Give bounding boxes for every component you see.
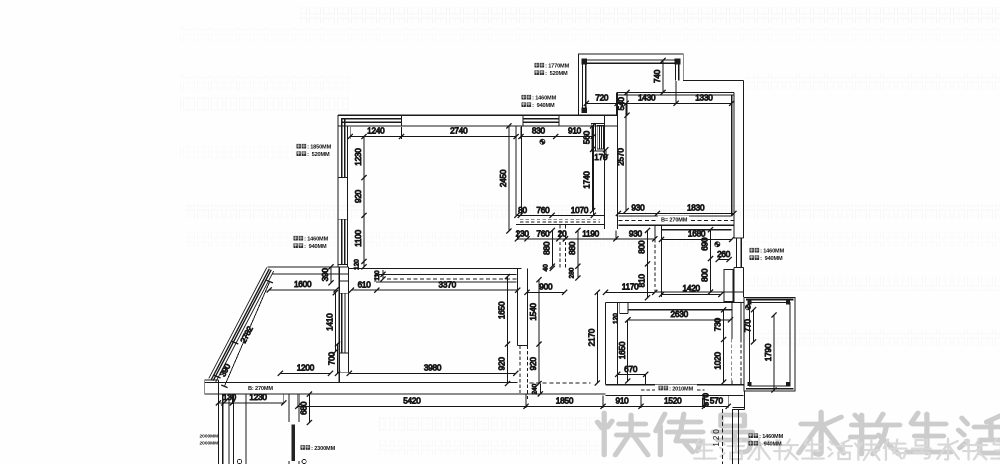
dim 1650 bedroom bbox=[618, 317, 631, 383]
svg-text:1330: 1330 bbox=[695, 93, 713, 102]
dim 110 bbox=[374, 270, 386, 282]
wall: pier divider lines on left wall bbox=[338, 178, 348, 265]
balcony railing corner posts bbox=[581, 59, 680, 113]
symbol phi marker bbox=[715, 242, 720, 247]
svg-text:740: 740 bbox=[653, 69, 662, 83]
dim 130/1230 bbox=[216, 393, 287, 405]
dim 3980 bbox=[347, 363, 519, 376]
annotation win 1460/940 d bbox=[749, 433, 784, 447]
svg-text:1410: 1410 bbox=[325, 313, 334, 331]
svg-text:: 940MM: : 940MM bbox=[532, 103, 555, 109]
dim 2170 bbox=[587, 290, 600, 386]
svg-text:40: 40 bbox=[543, 264, 550, 272]
svg-text:1200: 1200 bbox=[297, 364, 315, 373]
annotation win 1460/940 a bbox=[522, 95, 557, 109]
svg-text:80: 80 bbox=[518, 206, 527, 215]
svg-text:: 1770MM: : 1770MM bbox=[545, 64, 569, 70]
svg-text:20: 20 bbox=[558, 230, 567, 239]
svg-text:2170: 2170 bbox=[587, 328, 596, 346]
balcony railing left rail bbox=[583, 64, 586, 108]
wall: living room left band bbox=[339, 267, 348, 383]
corridor door jambs dashed bbox=[560, 225, 566, 268]
annotation win 1850/520 bbox=[297, 144, 332, 158]
svg-text:3370: 3370 bbox=[439, 280, 457, 289]
dim 740 balcony bbox=[653, 58, 666, 95]
svg-text:1790: 1790 bbox=[764, 343, 773, 361]
wall: bedroom C top bbox=[617, 92, 734, 94]
svg-text:920: 920 bbox=[529, 357, 538, 371]
symbol phi marker bbox=[745, 305, 750, 310]
svg-text:690: 690 bbox=[701, 237, 710, 251]
dim 1680 bbox=[659, 230, 734, 243]
dim 1600 bbox=[267, 280, 339, 293]
svg-text:800: 800 bbox=[701, 268, 710, 282]
svg-text:680: 680 bbox=[300, 401, 309, 415]
door leaf at stairwell bbox=[291, 424, 294, 461]
svg-text:1240: 1240 bbox=[367, 127, 385, 136]
svg-text:2450: 2450 bbox=[499, 169, 508, 187]
svg-text:920: 920 bbox=[354, 189, 363, 203]
svg-text:900: 900 bbox=[539, 282, 553, 291]
svg-text:610: 610 bbox=[358, 280, 372, 289]
dim 40 bbox=[543, 264, 555, 272]
dim 700 bbox=[328, 341, 341, 376]
annotation win 1460/940 c bbox=[750, 248, 785, 262]
dim 1540/920 bbox=[529, 277, 542, 386]
svg-text:2740: 2740 bbox=[450, 127, 468, 136]
window frame caps on top wall bbox=[402, 115, 560, 126]
svg-text:1830: 1830 bbox=[687, 204, 705, 213]
dim 1240/2740 bbox=[348, 127, 519, 140]
svg-text:700: 700 bbox=[328, 351, 337, 365]
dim 880 b bbox=[568, 228, 581, 269]
svg-text:540: 540 bbox=[617, 97, 626, 111]
svg-text:: 1460MM: : 1460MM bbox=[532, 96, 556, 102]
dim 720/1430/1330 bbox=[584, 93, 735, 106]
dim 610/3370 bbox=[349, 280, 521, 293]
dim 2630 bbox=[625, 310, 733, 323]
svg-text:: 2300MM: : 2300MM bbox=[311, 446, 335, 452]
living room curtain box bbox=[375, 274, 517, 282]
wall: partition bedroom A / bathroom bbox=[516, 126, 521, 216]
svg-text:670: 670 bbox=[624, 365, 638, 374]
svg-text:910: 910 bbox=[615, 396, 629, 405]
svg-text:1420: 1420 bbox=[682, 284, 700, 293]
dim 1790 bbox=[764, 312, 777, 392]
svg-text:5420: 5420 bbox=[403, 396, 421, 405]
master bedroom top-left column bbox=[620, 303, 628, 314]
dim 280 bbox=[569, 266, 581, 280]
wall: south-west block at diagonal foot bbox=[205, 380, 219, 394]
stairwell window glazing going south bbox=[223, 394, 229, 464]
window kitchen east glazing bbox=[734, 238, 744, 267]
svg-text:B= 270MM: B= 270MM bbox=[661, 218, 688, 224]
svg-text:: 520MM: : 520MM bbox=[545, 71, 568, 77]
svg-text:B: 270MM: B: 270MM bbox=[248, 386, 273, 392]
wall: master bedroom left band bbox=[606, 303, 618, 385]
stairwell door wall and opening bbox=[289, 394, 299, 464]
wall: east pier below kitchen window bbox=[734, 267, 744, 302]
wall below right balcony bbox=[733, 392, 745, 410]
wall: corridor right band bbox=[517, 268, 527, 345]
svg-text:1850: 1850 bbox=[556, 396, 574, 405]
dim 1190/930 bbox=[563, 230, 658, 242]
svg-text:: 1460MM: : 1460MM bbox=[759, 434, 783, 440]
svg-text:830: 830 bbox=[532, 127, 546, 136]
svg-text:1020: 1020 bbox=[714, 352, 723, 370]
svg-text:: 1850MM: : 1850MM bbox=[307, 145, 331, 151]
dim 1170 bbox=[603, 282, 658, 295]
annotation door 2010 bbox=[655, 385, 697, 395]
svg-text:2570: 2570 bbox=[616, 148, 625, 166]
wall: kitchen bottom band bbox=[655, 292, 744, 303]
wall: bedroom A bottom line bbox=[348, 267, 521, 269]
dim 690/800 bbox=[701, 227, 714, 295]
svg-text:: 1460MM: : 1460MM bbox=[760, 249, 784, 255]
svg-text:560: 560 bbox=[583, 130, 592, 144]
svg-text:: 940MM: : 940MM bbox=[304, 244, 327, 250]
dim 2782 diagonal bbox=[221, 280, 273, 387]
svg-text:880: 880 bbox=[568, 241, 577, 255]
svg-text:3980: 3980 bbox=[424, 363, 442, 372]
svg-text:1430: 1430 bbox=[638, 93, 656, 102]
wall: master bedroom right band with balcony door bbox=[732, 303, 741, 385]
svg-text:1680: 1680 bbox=[688, 230, 706, 239]
svg-text:570: 570 bbox=[710, 396, 724, 405]
svg-text:1600: 1600 bbox=[294, 280, 312, 289]
dim 540 offset bbox=[617, 90, 630, 118]
dim 2450 bbox=[499, 123, 512, 233]
svg-text:1170: 1170 bbox=[622, 282, 639, 291]
svg-text:1650: 1650 bbox=[618, 341, 627, 359]
dim 260 bbox=[716, 250, 732, 262]
wall: left exterior band of bedroom A bbox=[338, 115, 348, 267]
watermark small row bbox=[694, 439, 716, 459]
svg-text:810: 810 bbox=[638, 274, 647, 288]
svg-text:930: 930 bbox=[631, 204, 645, 213]
window living-room left glazing bbox=[342, 293, 345, 353]
svg-text:1740: 1740 bbox=[583, 171, 592, 189]
svg-text:: 520MM: : 520MM bbox=[307, 152, 330, 158]
dim 1650/920 lr bbox=[498, 274, 511, 386]
wall: top exterior band (rooms A+B) bbox=[338, 115, 617, 126]
dim 1420 bbox=[659, 284, 724, 297]
wall: bathroom right bbox=[592, 126, 594, 216]
svg-text:880: 880 bbox=[542, 241, 551, 255]
wall: master bedroom top bbox=[606, 303, 744, 310]
dim 830/910 bbox=[518, 127, 596, 140]
wall: south exterior main bbox=[205, 383, 606, 394]
dim 240 bbox=[531, 383, 543, 396]
diagonal bay window wall bbox=[209, 268, 274, 383]
svg-text:170: 170 bbox=[594, 153, 608, 162]
svg-text:760: 760 bbox=[536, 206, 550, 215]
wall: bay top band bbox=[268, 267, 349, 274]
vent shaft next to bathroom bbox=[591, 123, 604, 150]
dim 1200 bbox=[278, 364, 333, 376]
svg-text:390: 390 bbox=[321, 268, 330, 282]
svg-text:120: 120 bbox=[613, 313, 620, 324]
svg-text:570: 570 bbox=[702, 393, 711, 407]
annotation door 2300 bbox=[301, 445, 336, 452]
svg-text:1540: 1540 bbox=[529, 303, 538, 321]
beam note B=270 room C bbox=[658, 216, 689, 224]
dim 2570 bbox=[616, 101, 629, 214]
window top-wall of bathroom glazing bbox=[523, 119, 559, 122]
svg-text:730: 730 bbox=[714, 317, 723, 331]
svg-text:1230: 1230 bbox=[354, 148, 363, 166]
svg-text:1100: 1100 bbox=[354, 229, 363, 246]
dim 880 a bbox=[542, 228, 555, 269]
dim 390 v bbox=[321, 264, 334, 285]
svg-text:910: 910 bbox=[568, 127, 582, 136]
kitchen nook column bbox=[724, 270, 734, 302]
balcony railing right rail bbox=[676, 64, 679, 81]
svg-text:: 940MM: : 940MM bbox=[760, 256, 783, 262]
svg-text:280: 280 bbox=[569, 267, 576, 278]
dim bottom chain bbox=[295, 396, 731, 409]
dim 230/760/20 bbox=[515, 230, 568, 242]
balcony top railing top rail bbox=[583, 60, 680, 63]
faint tiled watermark rows bbox=[180, 75, 350, 91]
svg-text:110: 110 bbox=[374, 270, 381, 281]
watermark big: kuai chuan hao bbox=[597, 413, 647, 455]
wall: bedroom C bottom band with beam bbox=[618, 216, 734, 225]
dim 770 bbox=[744, 307, 757, 344]
extension lines bbox=[218, 64, 731, 408]
dim 670 bbox=[615, 365, 648, 385]
svg-text:240: 240 bbox=[531, 383, 538, 394]
dim 930/1830 bbox=[616, 204, 737, 217]
svg-text:1190: 1190 bbox=[582, 230, 599, 239]
balcony top: outer boundary line bbox=[579, 54, 744, 115]
svg-text:800: 800 bbox=[638, 240, 647, 254]
svg-text:2000MM: 2000MM bbox=[200, 434, 219, 440]
wall: bathroom bottom band bbox=[516, 215, 605, 224]
wall: south band under master bedroom (entry) bbox=[606, 385, 744, 396]
door knob circles bbox=[237, 459, 241, 463]
dim left chain bbox=[354, 134, 367, 270]
svg-text:1070: 1070 bbox=[571, 206, 589, 215]
svg-text:1520: 1520 bbox=[664, 396, 682, 405]
svg-text:770: 770 bbox=[744, 319, 753, 333]
window left-wall lower (1460MM) glazing bbox=[342, 219, 345, 264]
svg-text:2630: 2630 bbox=[671, 310, 689, 319]
wall: bedroom C left bbox=[605, 92, 618, 229]
dim 560/1740 bbox=[583, 123, 596, 213]
wall: kitchen top line bbox=[662, 229, 732, 231]
dim 680 bbox=[300, 392, 313, 426]
annotation win 1460/940 b bbox=[294, 236, 329, 250]
svg-text:2000MM: 2000MM bbox=[200, 441, 219, 447]
dim 730/1020 bbox=[714, 307, 727, 385]
svg-text:: 940MM: : 940MM bbox=[759, 442, 782, 448]
window left-wall upper (1850MM) glazing bbox=[342, 119, 345, 178]
svg-text:920: 920 bbox=[498, 357, 507, 371]
svg-text:1650: 1650 bbox=[498, 301, 507, 319]
svg-text:: 1460MM: : 1460MM bbox=[304, 237, 328, 243]
svg-text:1230: 1230 bbox=[249, 393, 267, 402]
svg-text:260: 260 bbox=[717, 250, 731, 259]
svg-text:930: 930 bbox=[629, 230, 643, 239]
svg-text:130: 130 bbox=[223, 393, 237, 402]
dim 80/760/1070 bbox=[514, 206, 596, 218]
dim 1410 bbox=[325, 290, 338, 354]
wall: bedroom C right / east exterior bbox=[732, 81, 744, 238]
svg-text:: 2010MM: : 2010MM bbox=[669, 386, 693, 392]
svg-text:1 2 0: 1 2 0 bbox=[712, 429, 721, 447]
dim 800/810 bbox=[638, 228, 651, 300]
entry jamb walls going south at bottom right bbox=[733, 409, 739, 464]
dim 900 bbox=[524, 282, 567, 295]
window top-wall of bedroom A glazing bbox=[341, 119, 402, 122]
svg-text:120: 120 bbox=[354, 259, 361, 270]
wall: kitchen left band bbox=[655, 225, 662, 297]
svg-text:720: 720 bbox=[595, 93, 609, 102]
right balcony frame bbox=[744, 298, 795, 392]
annotation win 1770/520 bbox=[535, 63, 570, 77]
entry opening dashed at south wall bbox=[530, 382, 591, 384]
symbol phi marker bbox=[540, 139, 545, 144]
dim 170 bbox=[594, 147, 608, 162]
beam note B=270 south bbox=[245, 384, 276, 392]
svg-text:760: 760 bbox=[536, 230, 550, 239]
